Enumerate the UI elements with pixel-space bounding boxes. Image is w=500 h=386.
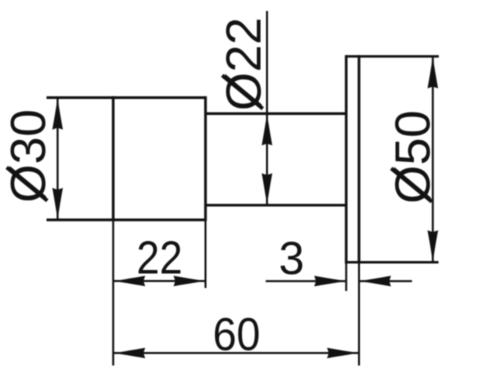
svg-text:Ø22: Ø22 xyxy=(217,17,272,111)
extension line flange front below xyxy=(345,262,347,291)
arrowhead Ø30 up xyxy=(52,98,63,130)
flange bottom edge + extension line xyxy=(346,261,438,264)
flange top edge + extension line xyxy=(346,55,439,58)
svg-text:Ø30: Ø30 xyxy=(1,109,56,203)
svg-text:22: 22 xyxy=(136,233,182,285)
arrowhead Ø22 up xyxy=(262,113,273,145)
label Ø50 (rotated) xyxy=(386,110,441,204)
label Ø22 (rotated) xyxy=(217,17,272,111)
svg-text:60: 60 xyxy=(213,310,261,361)
body step face between Ø30 and Ø22 xyxy=(204,96,207,221)
arrowhead Ø50 up xyxy=(428,56,439,88)
arrowhead 3 pointing left xyxy=(359,276,391,287)
neck Ø22 top edge xyxy=(206,112,347,115)
dimension line Ø30 xyxy=(57,98,59,220)
dimension line 3 left part xyxy=(266,280,347,282)
arrowhead Ø22 down xyxy=(262,173,273,205)
arrowhead 22 left xyxy=(113,276,145,287)
neck Ø22 bottom edge xyxy=(206,204,347,207)
extension line left face down to 60 dim xyxy=(112,220,114,366)
body Ø30 top edge + extension line xyxy=(47,96,206,99)
label Ø30 (rotated) xyxy=(1,109,56,203)
flange back face Ø50 xyxy=(358,55,361,264)
body Ø30 bottom edge + extension line xyxy=(47,219,206,222)
body Ø30 left face xyxy=(112,96,115,221)
svg-text:3: 3 xyxy=(279,232,305,284)
dimension line 22 xyxy=(113,280,205,282)
flange front face Ø50 xyxy=(345,55,348,264)
arrowhead Ø50 down xyxy=(428,230,439,262)
dimension line 3 right part xyxy=(359,280,412,282)
arrowhead Ø30 down xyxy=(52,188,63,220)
extension line flange back down to 60 dim xyxy=(358,262,360,365)
svg-text:Ø50: Ø50 xyxy=(386,110,441,204)
dimension/leader line Ø22 vertical xyxy=(266,11,268,205)
arrowhead 22 right xyxy=(174,276,206,287)
dimension line Ø50 xyxy=(432,56,434,262)
arrowhead 60 left xyxy=(113,348,145,359)
extension line step face down to 22 dim xyxy=(205,220,207,288)
dimension line 60 xyxy=(113,352,359,354)
arrowhead 60 right xyxy=(327,348,359,359)
arrowhead 3 pointing right xyxy=(314,276,346,287)
